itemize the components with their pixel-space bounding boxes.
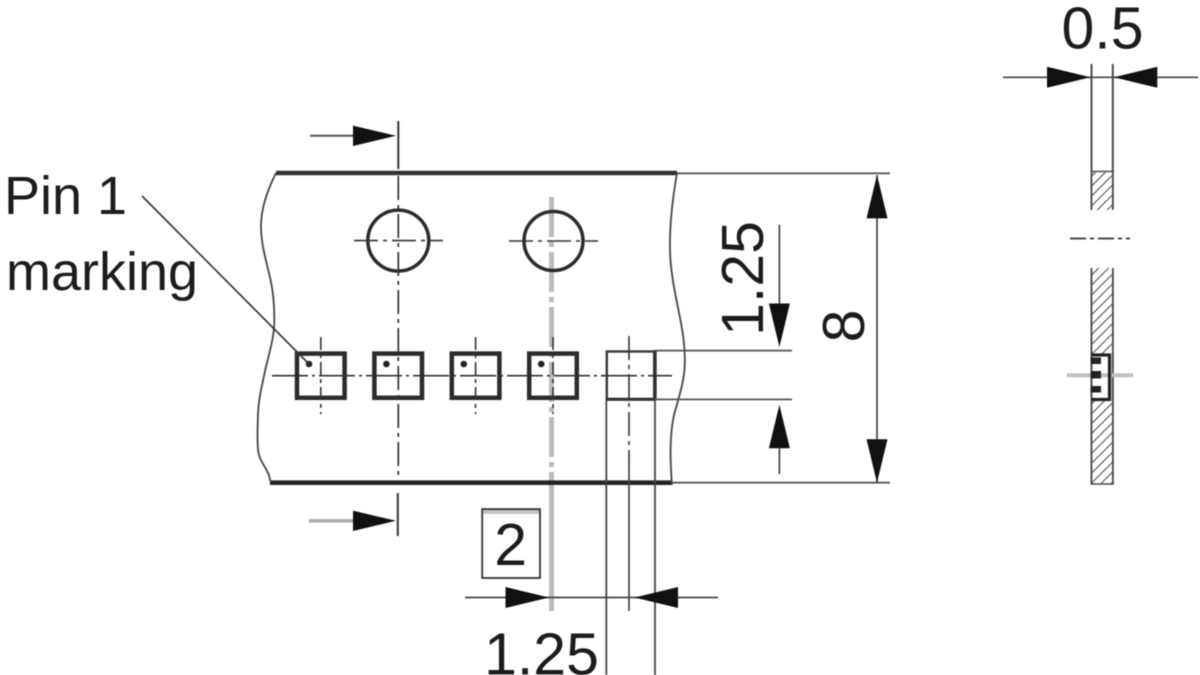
sprocket hole 1 centerline horizontal	[354, 240, 443, 242]
left break line	[257, 173, 276, 481]
svg-text:8: 8	[811, 310, 877, 343]
pocket 2 long vertical centerline solid above tape	[397, 121, 399, 169]
feed direction arrow bottom: head	[353, 511, 396, 531]
side view right edge upper	[1112, 64, 1114, 210]
tape bottom edge	[270, 480, 672, 485]
dim 1.25 right: line upper	[778, 225, 780, 307]
pocket 4 gray highlight centerline	[549, 197, 554, 480]
dim 1.25 right: line lower tail	[778, 448, 780, 474]
tape top edge	[276, 171, 677, 176]
svg-text:Pin 1: Pin 1	[4, 166, 127, 226]
bottom dim right arrow	[635, 587, 679, 608]
dim 1.25 right: lower arrow	[769, 405, 790, 449]
pocket 2 long vertical centerline	[397, 176, 399, 479]
side component blob 3	[1091, 386, 1102, 393]
pocket 5 centerline solid extension below tape	[628, 470, 630, 611]
pocket 3	[452, 354, 500, 398]
sprocket hole 2	[524, 212, 583, 271]
pocket 1 pin1 dot	[306, 361, 313, 368]
right break line	[670, 173, 685, 485]
pocket 3 vertical centerline	[475, 337, 477, 414]
side view left edge upper	[1091, 64, 1093, 210]
dim 8 bottom arrow	[867, 439, 888, 483]
feed direction arrow top: head	[353, 126, 396, 146]
sprocket hole 2 centerline horizontal	[509, 240, 598, 242]
pocket 5 bottom edge heavy	[606, 398, 656, 401]
dim 2 box	[482, 509, 540, 578]
feed direction arrow top: tail	[310, 135, 354, 137]
pocket 4 vertical centerline	[552, 337, 554, 414]
side hatch block 1	[1092, 172, 1112, 210]
bottom dim line	[465, 597, 718, 599]
dim 8 line	[876, 175, 878, 483]
side component blob 1	[1091, 358, 1102, 365]
feed arrow bottom vertical line	[397, 493, 399, 536]
side component blob 2	[1091, 371, 1102, 379]
pads horizontal centerline	[272, 375, 672, 377]
side pocket top	[1092, 353, 1111, 356]
feed direction arrow bottom: tail	[309, 519, 354, 522]
svg-text:1.25: 1.25	[484, 622, 599, 675]
pocket 1	[297, 354, 345, 398]
pocket 2	[374, 354, 422, 398]
side hatch block 3	[1092, 401, 1112, 483]
dim 1.25 right: upper arrow	[769, 304, 790, 348]
leader line from Pin 1 text	[142, 196, 309, 364]
side pocket gray centerline	[1067, 373, 1133, 377]
side hole centerline	[1070, 238, 1130, 240]
side hatch block 2	[1092, 268, 1112, 354]
side view right edge lower	[1112, 268, 1114, 485]
pocket 4	[529, 354, 577, 398]
pocket 5 right edge heavy	[653, 350, 656, 401]
pocket 3 pin1 dot	[461, 361, 468, 368]
svg-text:0.5: 0.5	[1061, 0, 1143, 62]
svg-text:2: 2	[494, 512, 527, 578]
dim 0.5 line	[1003, 76, 1198, 78]
side pocket right	[1108, 354, 1111, 402]
svg-text:marking: marking	[6, 242, 198, 302]
tape bottom edge thin extension	[672, 482, 890, 484]
tape top edge thin extension	[677, 172, 890, 174]
side view left edge lower	[1091, 268, 1093, 485]
pocket 5 bottom edge extension	[655, 398, 792, 400]
pocket 1 vertical centerline	[320, 337, 322, 414]
pocket 2 pin1 dot	[383, 361, 390, 368]
side view top cap	[1091, 171, 1114, 173]
sprocket hole 1	[368, 210, 429, 271]
pocket 5 (cut by break)	[607, 352, 654, 400]
svg-text:1.25: 1.25	[710, 221, 776, 336]
bottom dim left arrow	[506, 587, 550, 608]
dim 0.5 left arrow	[1047, 67, 1091, 88]
dim 2 box gray top	[483, 510, 539, 514]
dim 0.5 right arrow	[1114, 67, 1158, 88]
side pocket bottom	[1092, 398, 1111, 401]
dim 8 top arrow	[867, 175, 888, 219]
pocket 5 left edge extension line down	[605, 400, 607, 675]
gray highlight solid below tape	[549, 480, 554, 611]
pocket 4 pin1 dot	[538, 361, 545, 368]
side view bottom cap	[1091, 483, 1114, 485]
pocket 5 top edge extension	[655, 350, 792, 352]
pocket 5 vertical centerline	[628, 336, 630, 470]
pocket 5 right edge extension line down	[654, 400, 656, 675]
